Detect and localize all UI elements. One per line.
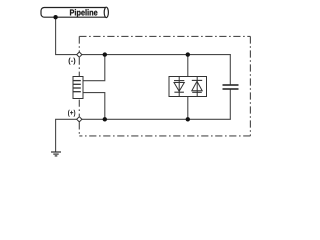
diode box — [169, 77, 207, 97]
terminal (-) diamond node — [77, 52, 82, 57]
wire: bottom horizontal (+) bus — [55, 118, 231, 120]
wire: pipeline down to (-) bus — [55, 17, 57, 54]
diode D1 (conducting down) — [174, 77, 184, 97]
junction dot on pipeline — [53, 15, 57, 19]
junction dot node B (bottom, cell branch) — [103, 117, 107, 121]
junction dot node D (bottom, diode branch) — [186, 117, 190, 121]
wire: diode box top lead — [187, 55, 189, 77]
label (+) — [68, 110, 75, 117]
wire: cell branch bottom — [83, 93, 105, 120]
wire: diode box bottom lead — [187, 97, 189, 120]
polarization cell — [73, 77, 83, 99]
junction dot node C (top, diode branch) — [186, 52, 190, 56]
wire: capacitor top lead — [229, 55, 231, 85]
junction dot node A (top, cell branch) — [103, 52, 107, 56]
wire: top horizontal (-) bus — [55, 54, 231, 56]
pipeline label — [70, 9, 97, 17]
wire: capacitor bottom lead — [229, 89, 231, 119]
wire: (+) bus left leg down to ground — [55, 119, 57, 152]
pipeline symbol — [41, 7, 108, 17]
ground symbol — [51, 152, 61, 156]
enclosure dash-dot boundary (device outline) — [79, 36, 250, 135]
terminal (+) diamond node — [77, 117, 82, 122]
wire: cell branch top — [83, 55, 105, 81]
label (-) — [69, 58, 76, 65]
capacitor C1 — [223, 85, 239, 89]
diode D2 (conducting up) — [192, 77, 202, 97]
